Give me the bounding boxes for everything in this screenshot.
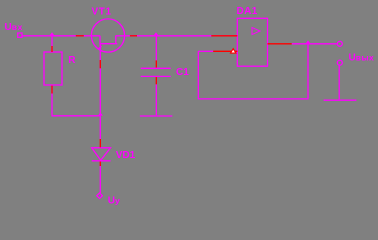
pin: capacitor C1 bottom [155,77,157,84]
resistor R1 body [44,52,62,85]
ground bar under C1 [140,115,172,117]
svg-text:Uвых: Uвых [349,53,375,64]
svg-text:Uу: Uу [108,196,120,207]
diode VD1 cathode bar [92,160,111,162]
junction at resistor tap [50,32,55,35]
pin: resistor R top [51,46,53,52]
pin: DA1 inverting input [213,50,237,52]
wire: input terminal to transistor [22,35,100,37]
pin: diode VD1 anode [99,139,101,147]
pin: transistor VT1 left (emitter) [76,35,84,37]
svg-text:DA1: DA1 [237,6,258,17]
red component pins [52,36,292,166]
wire: DA1 inverting input feedback [198,50,213,52]
transistor VT1 base lead down [99,44,101,139]
pin: capacitor C1 top [155,60,157,67]
pin: resistor R bottom [51,86,53,94]
op-amp DA1 amplifier triangle symbol [252,28,260,35]
pin: DA1 output [268,43,292,45]
wire: feedback loop [198,44,308,99]
junction at capacitor tap [154,32,159,35]
terminal output ground circle [337,60,342,65]
transistor VT1 internal staple [100,36,117,44]
capacitor C1 top lead [155,36,157,61]
wire: DA1 output to terminal [292,43,338,45]
wire: resistor bottom to rail [52,86,101,116]
pin: diode VD1 cathode [99,162,101,167]
svg-text:R: R [68,55,76,66]
diode VD1 triangle [92,148,111,161]
transistor VT1 emitter arrow [97,46,103,51]
capacitor C1 plates [141,67,171,69]
junction at base rail [98,112,103,115]
svg-text:VT1: VT1 [92,7,112,18]
wire: ground terminal lead [338,65,340,99]
pin: DA1 non-inverting input [211,35,237,37]
pin: transistor VT1 right (collector) [130,35,137,37]
wire: transistor to DA1 IN+ [116,35,238,37]
wire: diode to control terminal [99,166,101,193]
op-amp DA1 body [237,18,267,66]
svg-text:VD1: VD1 [116,150,136,161]
node marker at DA1 inverting input (white/red) [231,49,236,53]
transistor VT1 circle [91,19,124,52]
pin: transistor VT1 base [99,60,101,68]
terminal Uvyx (output circle) [337,41,342,46]
terminal Uy (diamond) [97,193,103,199]
terminal Uvx (input square) [18,33,22,37]
ground bar at output [324,99,357,101]
svg-text:Uвх: Uвх [5,22,24,33]
junction at feedback tap [306,40,311,43]
svg-text:C1: C1 [176,67,189,78]
wire: resistor branch vertical top [51,36,53,52]
capacitor C1 bottom lead [155,84,157,115]
